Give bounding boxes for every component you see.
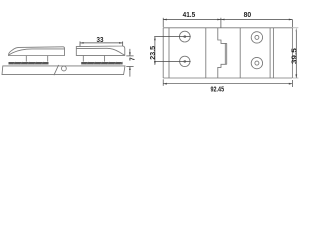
svg-text:23.5: 23.5 bbox=[150, 46, 157, 60]
svg-text:92.45: 92.45 bbox=[211, 86, 225, 93]
svg-text:7: 7 bbox=[129, 57, 136, 60]
svg-text:33: 33 bbox=[97, 37, 104, 44]
svg-text:39.5: 39.5 bbox=[291, 48, 298, 64]
svg-text:80: 80 bbox=[244, 12, 252, 19]
svg-text:41.5: 41.5 bbox=[183, 12, 196, 19]
